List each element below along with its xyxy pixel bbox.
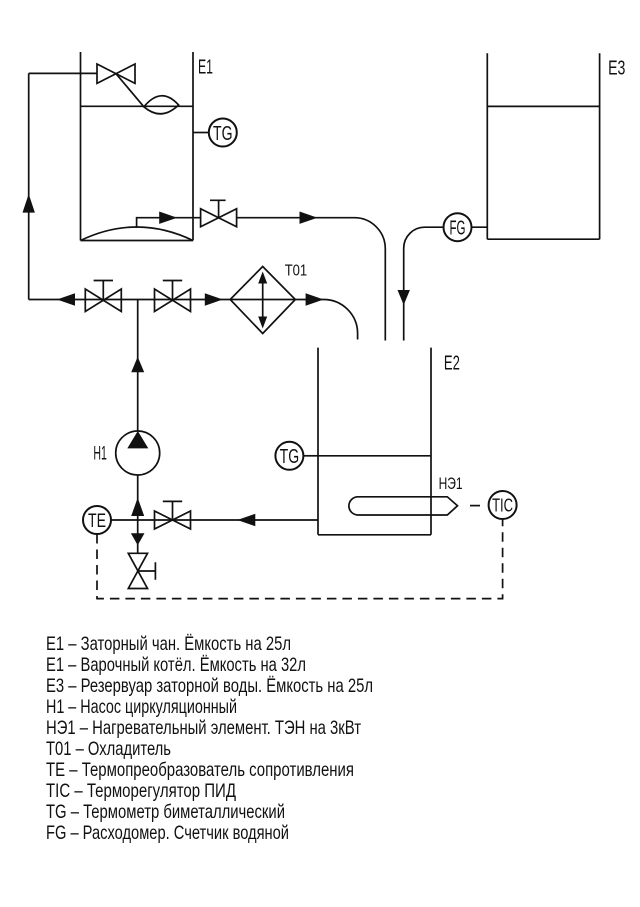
- arrow down on FG line: [398, 290, 410, 305]
- dashed control loop TE to TIC: [97, 519, 503, 599]
- svg-text:Н1: Н1: [93, 444, 107, 465]
- svg-text:Е3 – Резервуар заторной воды.: Е3 – Резервуар заторной воды. Ёмкость на…: [46, 675, 373, 697]
- svg-text:T01: T01: [285, 262, 308, 279]
- arrow up on riser: [23, 194, 35, 213]
- float ball: [144, 96, 179, 114]
- valve E1 outlet stem: [210, 200, 226, 217]
- arrow left on header: [57, 293, 75, 305]
- svg-text:TIC: TIC: [492, 495, 513, 515]
- valve drain vertical bowtie: [128, 553, 147, 588]
- svg-text:Е1 – Варочный котёл. Ёмкость н: Е1 – Варочный котёл. Ёмкость на 32л: [46, 654, 306, 676]
- instrument TE: [83, 506, 111, 534]
- dashed link heater to TIC: [470, 505, 480, 507]
- pump H1: [116, 431, 160, 475]
- svg-text:E2: E2: [444, 352, 460, 374]
- cooler T01 through line: [230, 299, 295, 301]
- tank E2 level line: [318, 455, 431, 457]
- tank E2 walls: [318, 348, 431, 535]
- arrow right after E1 valve: [300, 212, 318, 224]
- arrow up into pump: [131, 498, 144, 516]
- svg-text:ТIС – Терморегулятор ПИД: ТIС – Терморегулятор ПИД: [46, 780, 236, 802]
- tank E3 walls: [487, 53, 599, 239]
- arrow right inside E1: [159, 212, 177, 224]
- tank E1 level line: [81, 105, 194, 107]
- valve V1 bowtie: [85, 289, 121, 312]
- wire E2 outlet header: [111, 519, 318, 521]
- svg-text:FG: FG: [450, 217, 466, 239]
- instrument TG on E2: [275, 442, 303, 470]
- svg-text:НЭ1 – Нагревательный элемент.: НЭ1 – Нагревательный элемент. ТЭН на 3кВ…: [46, 717, 361, 739]
- tank E1 walls: [81, 52, 194, 241]
- svg-text:TE: TE: [88, 511, 106, 532]
- valve V3 stem: [163, 501, 182, 520]
- svg-text:Е1 – Заторный чан. Ёмкость на: Е1 – Заторный чан. Ёмкость на 25л: [46, 633, 291, 655]
- svg-text:НЭ1: НЭ1: [439, 475, 463, 493]
- float link wire: [116, 74, 144, 107]
- wire E1 outlet: [137, 218, 386, 341]
- instrument TG on E2 connector: [303, 455, 318, 457]
- heater НЭ1 capsule: [349, 497, 458, 515]
- svg-text:FG – Расходомер. Счетчик водян: FG – Расходомер. Счетчик водяной: [46, 822, 289, 844]
- valve V2 stem: [163, 281, 182, 300]
- wire suction riser left: [29, 73, 97, 299]
- wire return header: [29, 299, 231, 301]
- arrow left from E2: [237, 514, 255, 526]
- svg-text:Т01 – Охладитель: Т01 – Охладитель: [46, 738, 171, 760]
- svg-text:ТG – Термометр биметаллический: ТG – Термометр биметаллический: [46, 801, 285, 823]
- valve drain stem: [138, 562, 156, 580]
- cooler T01 diamond: [230, 267, 295, 334]
- valve V2 bowtie: [155, 289, 191, 312]
- svg-text:ТЕ – Термопреобразователь сопр: ТЕ – Термопреобразователь сопротивления: [46, 759, 354, 781]
- valve E1 outlet bowtie: [201, 209, 237, 227]
- svg-text:Н1 – Насос циркуляционный: Н1 – Насос циркуляционный: [46, 696, 237, 718]
- svg-text:E3: E3: [608, 58, 625, 80]
- arrow right into T01: [205, 293, 223, 305]
- valve V1 stem: [94, 281, 113, 300]
- arrow up pump discharge: [131, 357, 144, 373]
- wire pump suction: [137, 475, 139, 553]
- svg-text:TG: TG: [213, 122, 233, 145]
- instrument TIC: [489, 491, 517, 519]
- wire pump branch: [137, 300, 139, 432]
- wire T01 outlet curve into E2: [295, 300, 357, 340]
- instrument FG: [444, 213, 472, 241]
- cooler T01 inner double arrow: [262, 277, 264, 323]
- instrument TG on E1 connector: [193, 132, 209, 134]
- tank E1 dished bottom arc: [81, 227, 194, 241]
- svg-text:E1: E1: [198, 57, 213, 79]
- instrument TG on E1: [209, 119, 237, 147]
- valve V3 bowtie: [155, 511, 191, 529]
- valve float inlet bowtie: [97, 64, 135, 83]
- arrow right after T01: [306, 293, 324, 305]
- wire FG line from E3: [404, 227, 488, 340]
- legend text: [46, 633, 373, 844]
- svg-text:TG: TG: [280, 445, 300, 468]
- tank E3 level line: [487, 105, 599, 107]
- arrow down to drain: [131, 533, 145, 545]
